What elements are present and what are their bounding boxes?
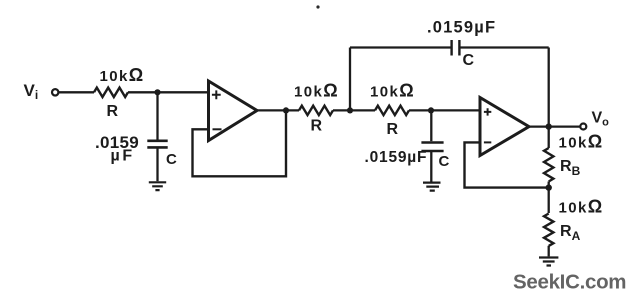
capacitor C1	[147, 141, 167, 148]
svg-text:R: R	[387, 121, 399, 138]
svg-text:R: R	[107, 103, 119, 120]
wire node A down to C1	[156, 92, 158, 139]
node F junction (feedback tap)	[546, 184, 552, 190]
svg-text:.0159µF: .0159µF	[427, 19, 496, 37]
node B junction (U1 output / feedback)	[283, 107, 289, 113]
op-amp U2	[480, 98, 529, 156]
capacitor C2	[421, 143, 443, 152]
resistor RB	[544, 148, 553, 182]
ground (RA)	[539, 258, 558, 266]
svg-text:RB: RB	[560, 158, 581, 178]
svg-text:µF: µF	[111, 148, 135, 165]
svg-text:10kΩ: 10kΩ	[294, 81, 339, 101]
svg-text:10kΩ: 10kΩ	[559, 197, 604, 217]
wire U1 feedback loop	[193, 110, 287, 176]
wire node E down to RB	[548, 127, 550, 148]
wire input to R1	[59, 91, 94, 93]
svg-text:C: C	[463, 52, 475, 69]
wire U2 output to Vo	[529, 125, 580, 127]
resistor R1	[94, 88, 128, 97]
svg-text:10kΩ: 10kΩ	[100, 65, 145, 85]
svg-text:10kΩ: 10kΩ	[559, 132, 604, 152]
svg-text:Vo: Vo	[592, 110, 610, 129]
capacitor C3	[452, 40, 460, 56]
svg-text:10kΩ: 10kΩ	[370, 81, 415, 101]
wire C1 to ground	[156, 147, 158, 181]
terminal Vo	[580, 124, 586, 130]
svg-text:SeekIC.com: SeekIC.com	[513, 271, 626, 294]
ground (C2)	[423, 183, 441, 191]
wire top left to C3	[350, 46, 451, 48]
node D junction	[428, 107, 434, 113]
svg-text:C: C	[166, 151, 177, 168]
node E junction (U2 output)	[546, 123, 552, 129]
resistor R2	[299, 106, 333, 115]
svg-text:RA: RA	[560, 223, 581, 243]
wire node D down to C2	[430, 110, 432, 141]
wire RA to ground	[548, 246, 550, 257]
node C junction (to top capacitor)	[347, 107, 353, 113]
wire U2 feedback loop	[465, 142, 549, 187]
wire top right down to output node	[548, 48, 550, 127]
wire C3 to right corner	[460, 46, 549, 48]
svg-text:Vi: Vi	[24, 81, 39, 102]
resistor R3	[375, 106, 409, 115]
wire C2 to ground	[430, 151, 432, 182]
wire node C up	[349, 48, 351, 111]
wire R1 to op-amp U1	[128, 91, 209, 93]
wire R2 to R3	[333, 109, 375, 111]
ground (C1)	[149, 182, 166, 190]
op-amp U1	[209, 81, 258, 141]
resistor RA	[544, 214, 553, 246]
svg-text:C: C	[439, 153, 450, 170]
svg-text:.0159µF: .0159µF	[365, 149, 428, 166]
node A junction	[154, 89, 160, 95]
wire R3 to op-amp U2	[409, 109, 480, 111]
svg-text:R: R	[311, 118, 323, 135]
terminal Vi	[52, 89, 58, 95]
wire U1 output to R2	[257, 109, 299, 111]
wire RB to RA	[548, 182, 550, 214]
